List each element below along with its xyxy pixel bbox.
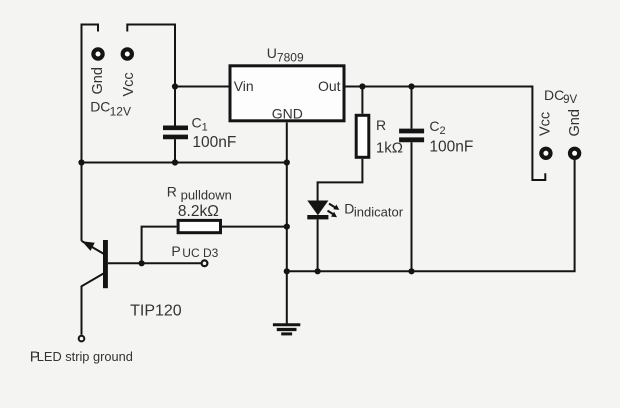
svg-text:Vin: Vin [234,78,254,94]
capacitor C1 [163,128,188,137]
svg-text:TIP120: TIP120 [130,302,182,319]
svg-text:P: P [171,243,180,259]
terminal P UC D3 [202,260,208,266]
svg-text:100nF: 100nF [429,139,473,156]
svg-text:Out: Out [318,78,341,94]
terminal DC9V Gnd [570,149,579,158]
op-amp U1: regulator U7809 box [230,66,344,121]
wire: C2 bottom [411,142,413,271]
wire: regulator GND pin down to earth [286,122,288,324]
label R 1k [376,117,403,156]
svg-text:Gnd: Gnd [90,67,106,94]
svg-text:C2: C2 [429,118,445,137]
svg-text:R: R [376,117,386,133]
wire: C1 bottom to ground bus [174,139,176,162]
svg-text:pulldown: pulldown [181,188,232,203]
wire: base to P UC D3 [108,262,201,264]
LED D indicator [307,201,339,220]
node: junction C2/bottom return [408,268,414,274]
node: junction bus C1 [172,159,178,165]
wire: DC12V Vcc tick to Vin net [127,25,175,126]
svg-text:100nF: 100nF [192,134,236,151]
node: junction Out/C2 [408,83,414,89]
terminal DC12V Vcc [123,49,132,58]
resistor R pulldown [178,220,220,232]
svg-text:Gnd: Gnd [567,109,583,136]
svg-text:12V: 12V [110,105,131,119]
svg-text:Vcc: Vcc [537,112,553,136]
svg-text:DC: DC [90,98,110,114]
svg-text:C1: C1 [192,115,208,134]
wire: C2 top [411,87,413,129]
label C1 [192,115,237,152]
resistor R 1k [356,115,369,157]
svg-text:DC: DC [544,87,564,103]
label R pulldown [167,183,232,220]
terminal DC9V Vcc [541,149,550,158]
wire: Out net [346,87,546,181]
wire: Vin feed [175,86,229,88]
ground [273,325,300,334]
node: junction GND/R pulldown [284,224,290,230]
wire: LED cathode down [317,219,319,271]
svg-text:LED strip ground: LED strip ground [37,349,133,364]
svg-text:8.2kΩ: 8.2kΩ [178,203,219,220]
wire: R pulldown left to base [142,227,177,264]
svg-text:R: R [167,183,177,199]
wire: ground bus [82,162,287,164]
node: junction Out/R1k [359,83,365,89]
wire: R pulldown right to GND [222,226,287,228]
svg-text:GND: GND [272,105,303,121]
svg-text:indicator: indicator [354,205,404,220]
capacitor C2 [399,131,424,140]
terminal DC12V Gnd [93,49,102,58]
node: junction base [139,260,145,266]
node: junction Vin/C1 [172,83,178,89]
node: junction GND/bottom return [284,268,290,274]
wire: R1k top [361,87,363,114]
svg-text:UC D3: UC D3 [182,246,218,260]
node: junction bus GND pin [284,159,290,165]
svg-text:1kΩ: 1kΩ [376,140,403,157]
wire: R1k bottom to LED anode [318,159,363,201]
node: junction bus left [78,159,84,165]
wire: DC12V left vertical to transistor emitter [82,25,99,241]
svg-text:U7809: U7809 [267,45,304,65]
wire: bottom return to DC9V Gnd [287,160,575,271]
node: junction LED/bottom return [315,268,321,274]
svg-text:9V: 9V [563,94,577,106]
svg-text:Vcc: Vcc [121,72,137,96]
transistor Q1 TIP120 [82,240,108,335]
label C2 [429,118,473,156]
terminal P LED strip ground [79,336,85,342]
